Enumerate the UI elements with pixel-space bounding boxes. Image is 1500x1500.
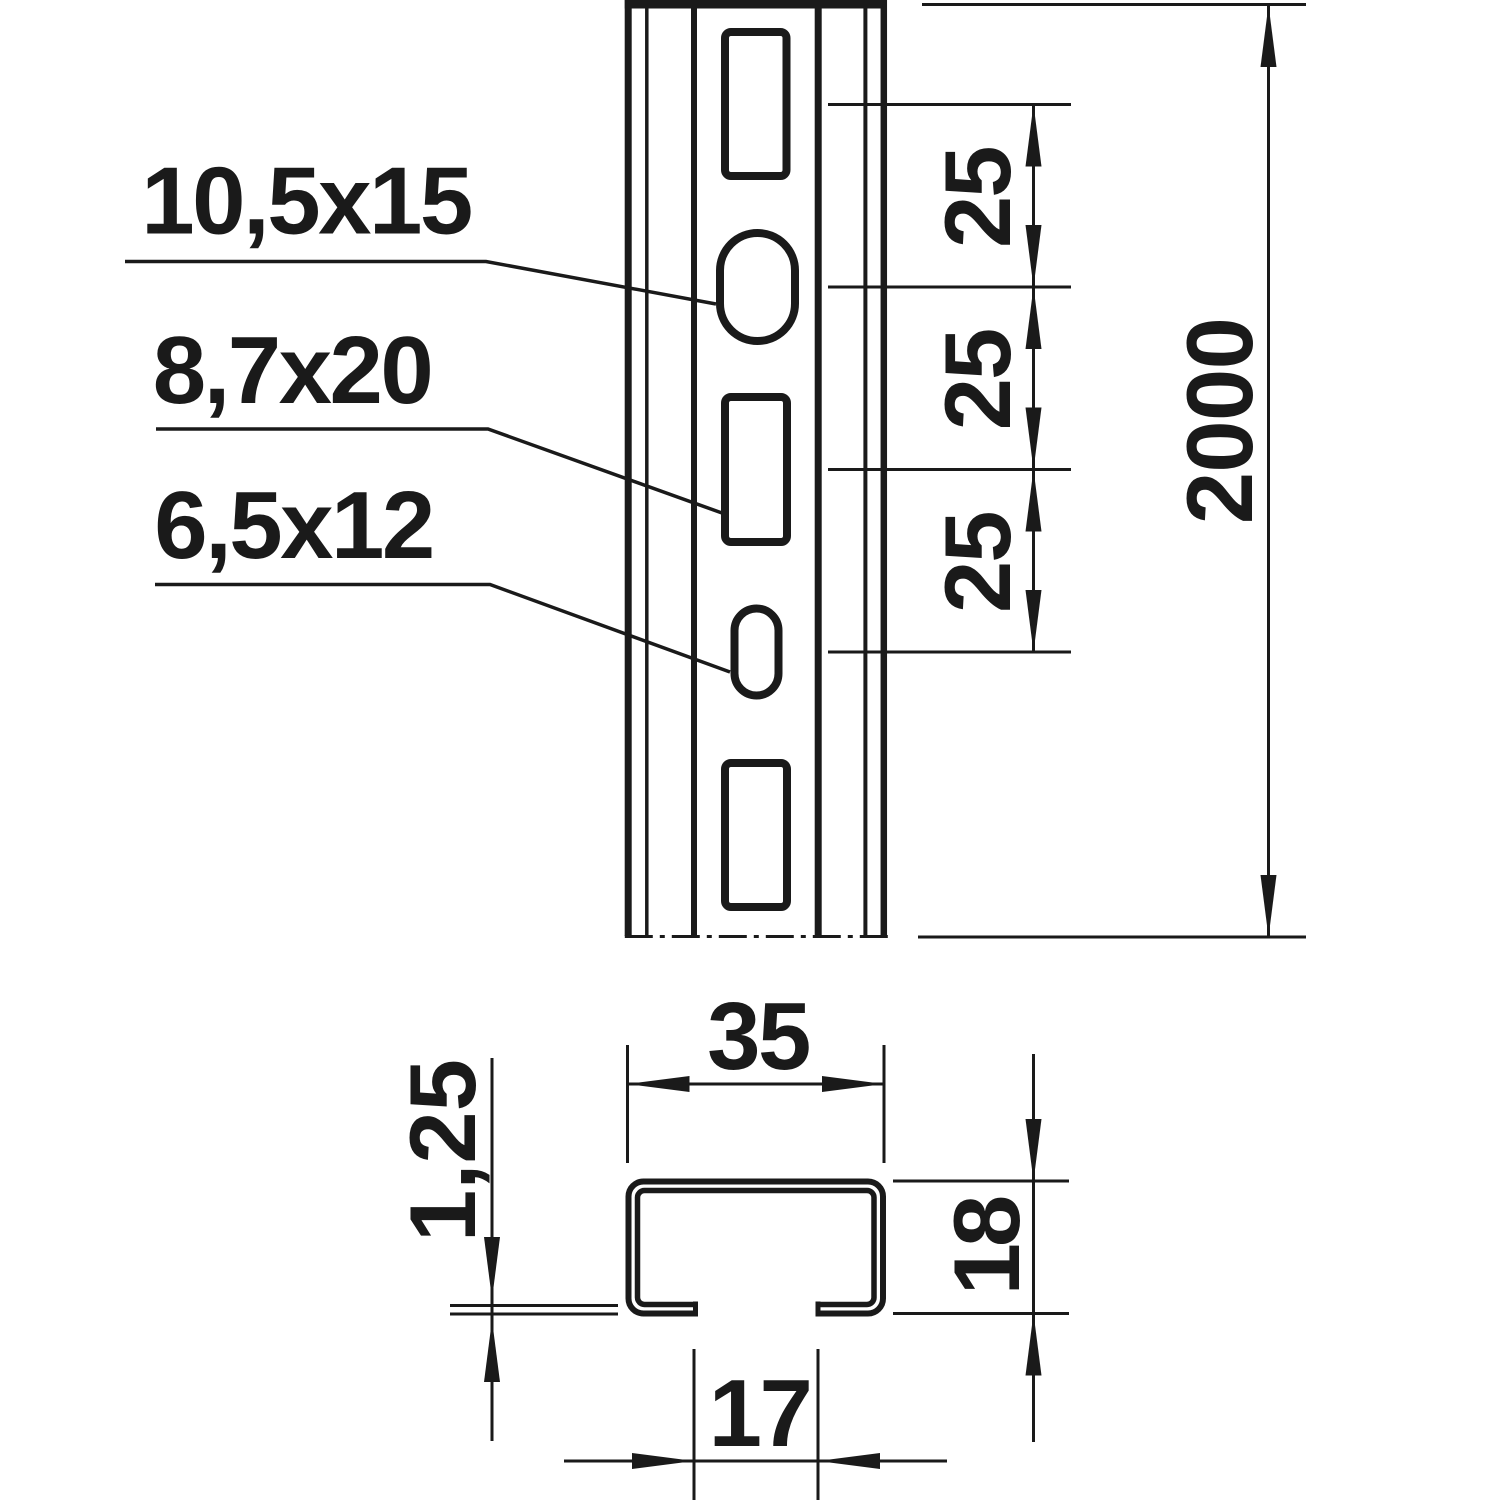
svg-text:35: 35 xyxy=(707,983,809,1090)
svg-text:17: 17 xyxy=(709,1360,811,1467)
svg-text:25: 25 xyxy=(925,330,1030,431)
svg-text:18: 18 xyxy=(934,1197,1039,1295)
svg-text:25: 25 xyxy=(925,512,1030,613)
svg-text:2000: 2000 xyxy=(1167,318,1272,524)
svg-text:6,5x12: 6,5x12 xyxy=(154,472,433,579)
svg-text:8,7x20: 8,7x20 xyxy=(153,317,432,424)
svg-text:1,25: 1,25 xyxy=(390,1059,495,1242)
svg-text:10,5x15: 10,5x15 xyxy=(141,148,471,255)
svg-text:25: 25 xyxy=(925,147,1030,248)
